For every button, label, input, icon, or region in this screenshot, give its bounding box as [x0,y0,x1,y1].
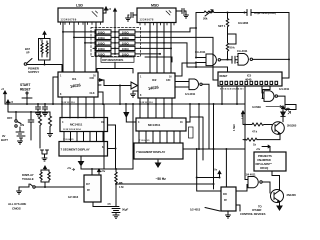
driver IC4 box [136,118,186,131]
node dots driver feeds [61,103,173,105]
wire bus under IC1 [53,103,245,105]
wire DIP row4 [135,47,171,49]
svg-text:7 1 2 6 4 3 5: 7 1 2 6 4 3 5 [139,139,150,142]
wire gate A out [221,59,233,61]
display1 dp arrow [67,156,84,171]
wire FF output long to IC6 [116,183,214,185]
svg-text:100Ω: 100Ω [122,52,130,56]
node dot top chain [227,12,246,14]
wire FF right pin [93,202,113,207]
capacitor C1 to ground [36,104,41,116]
wire aux segment [145,57,172,62]
+5V arrows left edge [1,87,14,107]
svg-text:UNLIMITED: UNLIMITED [257,158,271,162]
battery switch OFF ON [7,112,24,127]
svg-text:TOGGLE: TOGGLE [22,177,34,181]
clock buffer into IC2 [131,82,138,89]
wire Q1 base line [243,116,252,125]
diode pair to ground [41,150,49,161]
svg-text:LSD: LSD [76,4,83,8]
nand gate E [237,49,253,65]
wire driver1 to display1 segment lines [64,132,103,142]
svg-text:100Ω: 100Ω [98,36,106,40]
svg-text:100Ω: 100Ω [98,47,106,51]
svg-text:IC6: IC6 [223,192,227,196]
svg-text:DIP ALARM™: DIP ALARM™ [256,162,273,166]
alarm PROJECTS box [254,152,286,171]
LED indicator [281,106,291,122]
wire resistor block to switch wire [44,60,46,65]
resistor R bat2 [39,112,42,129]
+5 arrow Q1 feed [242,111,245,116]
ground battery [18,141,23,144]
resistor 100-ohm grid column 2 [119,30,135,57]
resistor 100-ohm grid column 1 [95,30,111,57]
svg-text:BAT: BAT [25,47,30,51]
wire IC2 right pins [175,63,196,76]
display1 right pin [108,148,116,150]
capacitor C bat1 [28,112,34,128]
node dots DIP common [114,31,116,55]
svg-text:SUPPLY: SUPPLY [28,70,39,74]
ground Q2 emitter arrow [277,202,282,211]
wire IC6 sense vertical [197,149,221,191]
ground toggle [17,187,22,194]
svg-text:1 SEC: 1 SEC [232,124,236,131]
svg-text:IC1: IC1 [72,77,77,81]
svg-text:C5: C5 [108,202,112,206]
resistor network block [39,39,51,61]
node dots FF feed [91,168,117,170]
wire Q2 collector up to alarm box [272,171,280,191]
display MSD box [137,4,176,26]
long divider IC5 box [218,72,282,86]
capacitor IC2 pin ground [131,91,139,97]
transistor Q2 [271,190,297,203]
wire reset rail [5,77,58,104]
top right pot 20k [203,10,214,21]
svg-text:9 7 6 5 3 2 4 13 12 14: 9 7 6 5 3 2 4 13 12 14 15 1 [220,88,244,91]
svg-text:+5: +5 [1,87,5,91]
svg-text:MC14511: MC14511 [70,123,83,127]
wire 1M down to cap [115,184,117,207]
DIP RESISTORS label [101,57,134,62]
ground capacitor [113,215,119,218]
svg-text:100Ω: 100Ω [122,30,130,34]
node dot right bus [288,58,290,60]
svg-text:IC7: IC7 [86,182,90,186]
wire right bus [253,13,289,79]
svg-text:FF: FF [87,188,90,192]
svg-text:CA-4011: CA-4011 [195,50,206,54]
svg-text:1N-1366: 1N-1366 [238,21,249,25]
svg-text:CLK: CLK [90,91,95,95]
svg-text:20k: 20k [203,17,208,21]
capacitor 0.1uF top right [247,10,276,16]
svg-text:+5v: +5v [213,168,218,172]
capacitor small on wire [189,127,194,138]
resistor 1M vertical [115,169,124,189]
+5V arrow at displays [103,7,112,13]
wire gate A input feed [195,13,197,68]
wire IC1 to driver1 pins [62,97,94,118]
node dot dp [115,148,117,150]
nand gate B [185,79,202,96]
svg-text:BATT: BATT [1,138,8,142]
svg-text:10 12 13 9 11 6: 10 12 13 9 11 6 [139,102,153,104]
node dot toggle [44,186,46,188]
wire driver1 right pin to DP node [108,125,116,169]
flipflop IC7 box [84,175,101,202]
wire gate B output to gate D [202,84,209,149]
wire battery top rail [8,104,50,112]
battery 9V [1,127,25,142]
wire chain mid [227,29,229,60]
svg-text:+5v: +5v [256,147,261,151]
+5 arrow IC6 [197,168,221,178]
node dot carry wire [119,85,121,87]
node dot switch wire [44,64,46,66]
svg-text:FF: FF [224,198,227,202]
node dot [195,62,197,64]
wire IC2 to driver2 pins [140,98,172,118]
svg-text:50 k: 50 k [230,46,236,50]
node dot lamp test [125,103,127,105]
svg-text:50μF: 50μF [122,208,129,212]
display2 dp arrow [156,160,161,167]
svg-text:10 12 13 9 11 6: 10 12 13 9 11 6 [61,102,75,104]
svg-text:SET 1: SET 1 [218,24,226,28]
svg-text:1/2 4013: 1/2 4013 [68,195,79,199]
wire IC1 carry to IC2 clock [98,80,131,86]
wire +5 arrow into alarm box [256,145,270,152]
wire FF top feed [81,169,133,175]
resistor set1 [218,13,249,29]
nand gate C [262,87,290,102]
svg-text:CONTROL DEVICES: CONTROL DEVICES [240,212,266,216]
svg-text:MSD: MSD [151,4,159,8]
wire DIP label to IC supply pins [97,62,133,73]
svg-text:1/4-4011: 1/4-4011 [185,92,196,96]
svg-text:47 k: 47 k [252,130,258,134]
svg-text:1/4-4011: 1/4-4011 [279,87,290,91]
svg-text:PROJECTS: PROJECTS [258,154,272,158]
svg-text:1 2 3 4 5 6 7 8 9: 1 2 3 4 5 6 7 8 9 [61,18,77,21]
wire DIP row2 to divider reset [135,37,218,80]
svg-text:ALL IC'S ARE: ALL IC'S ARE [8,202,26,206]
node dots reset rail [7,103,54,105]
node dots IC6 feed [196,177,221,179]
svg-text:7 SEGMENT DISPLAY: 7 SEGMENT DISPLAY [61,148,90,152]
toggle switch [19,184,35,188]
svg-text:+5v: +5v [67,166,72,170]
wire gate E out to bus [253,58,290,60]
+5 arrow FF [98,169,106,174]
3.3 Mohm label with arrow [252,105,282,109]
svg-text:1 M: 1 M [119,185,124,189]
transistor Q1 [272,122,297,135]
svg-text:2N1305: 2N1305 [287,124,297,128]
wire IC2 to gate B [175,82,186,88]
svg-text:ON: ON [20,123,24,127]
svg-text:1/2 4013: 1/2 4013 [190,208,201,212]
wire gate C out loop [278,96,297,109]
vertical from rail at 104 [104,104,133,169]
wire toggle to FF [35,186,84,188]
svg-text:100Ω: 100Ω [122,36,130,40]
svg-text:1/4 4011: 1/4 4011 [246,173,256,177]
node dot [213,183,215,185]
+5 arrow DIP common [114,9,117,14]
svg-text:DIP RESISTORS: DIP RESISTORS [102,58,123,62]
svg-text:+5v: +5v [101,169,106,173]
wire tap down from carry wire [119,86,121,105]
wire DIP row3 to divider clock [135,43,228,72]
capacitor + ground left of MSD [126,13,138,22]
svg-text:3.3 MΩ: 3.3 MΩ [252,105,261,109]
wire driver2 right pin to rail [186,104,190,122]
wire gate D out to Q2 base [262,182,270,193]
display LSD box [58,4,103,25]
svg-text:1k: 1k [253,143,256,147]
svg-text:~50 Hz: ~50 Hz [156,177,167,181]
svg-text:+5: +5 [10,100,14,104]
wire IC1 clock pin right [98,85,103,104]
1/2 4013 label with arrow [190,208,220,212]
svg-text:100Ω: 100Ω [122,41,130,45]
wire display2 right long [183,148,245,150]
7 segment display 2 box [134,143,183,159]
wire DIP row links left [63,32,119,54]
wire driver2 to display2 segment lines [139,131,180,143]
wire resistors down [31,129,40,149]
wire MSD segment lines down [150,23,171,74]
wire IC6 top vertical [214,104,227,189]
svg-text:+5: +5 [108,7,112,11]
svg-text:CMOS: CMOS [12,207,21,211]
svg-text:7 SEGMENT DISPLAY: 7 SEGMENT DISPLAY [136,150,165,154]
svg-text:RESET: RESET [20,88,31,92]
wire top chain [196,12,247,14]
node dots emitter line [244,124,246,141]
svg-text:START: START [20,83,30,87]
wire toggle resistors to switch wire [44,182,46,187]
wire LSD segment lines down [63,22,96,72]
node dots DIP rows [62,31,172,55]
resistor toggle pullup pair [40,166,50,182]
node dots rail [15,111,41,113]
resistor R bat3 [47,112,52,137]
svg-text:C/O: C/O [166,78,170,82]
wire Q1 emitter down [257,134,280,140]
capacitor 50uF [108,202,129,215]
driver IC3 box [60,118,108,132]
counter IC2 4026 box [138,73,175,98]
node dots gate A in [195,27,197,68]
node dot chain [227,59,229,61]
nand gate D [245,177,262,188]
resistor 1k emitter [243,138,257,146]
svg-text:1 2 3 4 5 6 7 8: 1 2 3 4 5 6 7 8 [140,19,155,22]
nand gate A [195,50,221,66]
start-reset switch [22,92,32,104]
wire IC5 output pins down [222,86,270,180]
DIP common pin vertical [114,14,116,54]
counter IC1 4026 box [58,72,98,97]
svg-text:RESET: RESET [220,75,228,78]
DIP resistor pack dashed box [91,28,141,57]
resistor set2 with loop [226,34,236,53]
svg-text:IC2: IC2 [152,78,157,82]
svg-text:100Ω: 100Ω [122,47,130,51]
svg-text:C/O: C/O [90,76,94,80]
node dots bus [102,103,238,105]
wire IC6 right to gate D [236,185,247,212]
svg-text:7 1 2 6 4 3 5: 7 1 2 6 4 3 5 [63,138,74,141]
svg-text:13 12 11 10 9 15 14: 13 12 11 10 9 15 14 [63,128,81,131]
lamp test arrow into driver2 [124,104,136,122]
svg-text:MC14511: MC14511 [148,123,161,127]
svg-text:UP: UP [26,51,30,55]
7 segment display 1 box [59,142,108,157]
resistor Q1 base 47k [252,123,272,134]
svg-text:CA-4011: CA-4011 [237,49,248,53]
wire right column pair [190,104,203,160]
ground IC6 [226,211,231,218]
+5V arrow above resistor block [43,32,46,39]
node dots display2 wire [196,148,228,150]
decoupling capacitor + ground right of MSD [176,9,189,19]
power supply switch [24,59,62,73]
svg-text:2N1306: 2N1306 [287,193,297,197]
svg-text:OR EQ: OR EQ [260,166,268,170]
wire DIP row1 to pot line [135,28,196,32]
capacitor between gates [232,56,237,63]
svg-text:100Ω: 100Ω [98,41,106,45]
svg-text:100Ω: 100Ω [98,30,106,34]
wire DIP row5 [135,53,160,55]
flipflop IC6 box [221,187,236,211]
svg-text:100Ω: 100Ω [98,52,106,56]
wire IC5 right to bus [282,77,289,79]
node dot 1M tap [115,183,117,185]
capacitor C2 to ground [43,104,48,116]
svg-text:OFF: OFF [7,116,13,120]
